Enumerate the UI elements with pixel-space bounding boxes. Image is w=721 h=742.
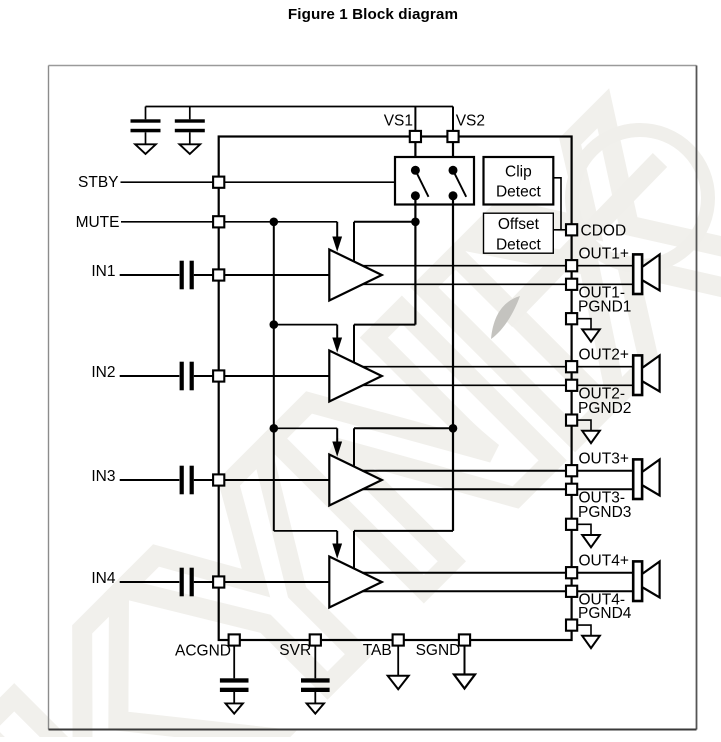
pin OUT2-	[566, 380, 577, 391]
svg-text:CDOD: CDOD	[581, 222, 627, 239]
pin OUT1+	[566, 260, 577, 271]
pin IN2	[213, 370, 224, 381]
pin TAB	[393, 634, 404, 645]
svg-text:Figure 1 Block diagram: Figure 1 Block diagram	[288, 6, 458, 23]
ground (PGND4)	[582, 636, 600, 648]
capacitor (IN2 coupling)	[180, 362, 194, 391]
wire OUT2-	[362, 384, 633, 386]
wire: mute tap amp 2	[274, 324, 337, 326]
svg-text:PGND2: PGND2	[578, 400, 631, 417]
op-amp A4	[329, 557, 382, 608]
svg-text:OUT3+: OUT3+	[579, 451, 629, 468]
pin OUT3+	[566, 465, 577, 476]
wire: VS2 bus	[452, 196, 454, 531]
wire: mute tap amp 3	[274, 427, 337, 429]
wire IN1 to coupling cap	[120, 274, 180, 276]
ground (SGND)	[454, 675, 475, 689]
Offset Detect block	[484, 213, 554, 253]
svg-text:PGND4: PGND4	[578, 605, 632, 622]
junction on VS1 bus	[411, 218, 420, 227]
ground (PGND1)	[582, 329, 600, 341]
junction on mute bus	[270, 218, 279, 227]
pin ACGND	[229, 634, 240, 645]
wire cap to IN3 pin	[194, 479, 213, 481]
svg-text:IN1: IN1	[91, 263, 115, 280]
wire OUT1-	[362, 283, 633, 285]
pin OUT3-	[566, 484, 577, 495]
capacitor C1 (supply decoupling)	[131, 107, 161, 145]
capacitor C2 (supply decoupling)	[175, 107, 205, 145]
wire IN3 pin to amp	[224, 479, 329, 481]
mute arrow into amp 1	[332, 222, 342, 252]
pin IN3	[213, 474, 224, 485]
IC block outline	[219, 137, 572, 641]
svg-text:Offset: Offset	[498, 216, 540, 233]
switch SW1 (VS1)	[411, 166, 429, 201]
capacitor (IN4 coupling)	[180, 568, 194, 597]
wire OUT4-	[362, 590, 633, 592]
pin PGND2	[566, 415, 577, 426]
pin OUT1-	[566, 279, 577, 290]
pin PGND1	[566, 313, 577, 324]
pin PGND3	[566, 519, 577, 530]
op-amp A3	[329, 455, 382, 506]
wire PGND1 to ground	[577, 319, 591, 330]
wire MUTE	[121, 221, 337, 223]
svg-text:Detect: Detect	[496, 183, 541, 200]
wire cap to IN2 pin	[194, 375, 213, 377]
mute arrow into amp 2	[332, 325, 342, 353]
ground (below C2)	[180, 144, 201, 154]
svg-text:Detect: Detect	[496, 236, 541, 253]
junction on mute bus	[270, 424, 279, 433]
speaker LS1	[633, 254, 659, 294]
svg-text:VS1: VS1	[384, 113, 413, 130]
wire: VS1 pin to switch	[414, 142, 416, 171]
wire: top supply rail	[146, 106, 454, 108]
wire: mute bus	[273, 222, 275, 531]
wire OUT2+	[362, 366, 633, 368]
wire PGND3 to ground	[577, 524, 591, 535]
speaker LS2	[633, 355, 659, 395]
ground (ACGND)	[226, 703, 243, 713]
pin OUT2+	[566, 361, 577, 372]
svg-text:ACGND: ACGND	[175, 642, 231, 659]
wire SGND down	[464, 645, 466, 675]
wire clip detect to CDOD	[553, 178, 561, 230]
svg-text:PGND1: PGND1	[578, 299, 631, 316]
pin CDOD	[566, 224, 577, 235]
wire offset detect to CDOD	[553, 229, 567, 231]
switch box	[395, 157, 474, 205]
svg-text:PGND3: PGND3	[578, 504, 631, 521]
wire IN1 pin to amp	[224, 274, 329, 276]
svg-text:STBY: STBY	[78, 174, 118, 191]
wire TAB down	[397, 645, 399, 676]
ground (SVR)	[307, 703, 324, 713]
wire: VS1 bus	[414, 196, 416, 325]
wire OUT3+	[362, 470, 633, 472]
wire: supply tap amp 3	[354, 428, 453, 466]
capacitor (SVR)	[301, 678, 330, 703]
junction on mute bus	[270, 320, 279, 329]
wire: supply tap amp 1	[354, 222, 415, 262]
pin OUT4+	[566, 567, 577, 578]
ground (below C1)	[135, 144, 156, 154]
pin SVR	[310, 634, 321, 645]
wire IN3 to coupling cap	[120, 479, 180, 481]
svg-text:IN2: IN2	[91, 364, 115, 381]
capacitor (IN1 coupling)	[180, 261, 194, 290]
wire OUT3-	[362, 488, 633, 490]
wire OUT4+	[362, 572, 633, 574]
ground (TAB)	[388, 676, 409, 690]
pin OUT4-	[566, 586, 577, 597]
svg-text:OUT1+: OUT1+	[579, 246, 629, 263]
svg-text:IN4: IN4	[91, 570, 116, 587]
switch SW2 (VS2)	[449, 166, 467, 201]
wire IN2 to coupling cap	[120, 375, 180, 377]
Clip Detect block	[484, 157, 554, 205]
wire: VS2 pin to switch	[452, 142, 454, 171]
wire: VS1 drop	[414, 107, 416, 132]
wire IN4 pin to amp	[224, 581, 329, 583]
wire SVR down	[314, 645, 316, 678]
mute arrow into amp 4	[332, 531, 342, 559]
wire PGND4 to ground	[577, 625, 591, 636]
pin VS1	[410, 131, 421, 142]
mute arrow into amp 3	[332, 428, 342, 456]
pin SGND	[459, 634, 470, 645]
ground (PGND3)	[582, 535, 600, 547]
wire cap to IN1 pin	[194, 274, 213, 276]
wire IN2 pin to amp	[224, 375, 329, 377]
op-amp A1	[329, 250, 382, 301]
ground (PGND2)	[582, 431, 600, 443]
wire ACGND down	[233, 645, 235, 678]
pin PGND4	[566, 620, 577, 631]
junction on VS2 bus	[449, 424, 458, 433]
pin VS2	[447, 131, 458, 142]
wire: supply tap amp 4	[354, 531, 453, 569]
pin IN4	[213, 576, 224, 587]
svg-text:SGND: SGND	[416, 642, 461, 659]
svg-text:Clip: Clip	[505, 163, 532, 180]
pin MUTE	[213, 216, 224, 227]
wire: mute tap amp 4	[274, 530, 337, 532]
wire PGND2 to ground	[577, 420, 591, 431]
svg-text:TAB: TAB	[363, 642, 392, 659]
wire: supply tap amp 2	[354, 325, 415, 363]
wire cap to IN4 pin	[194, 581, 213, 583]
svg-text:OUT4+: OUT4+	[579, 553, 629, 570]
wire OUT1+	[362, 265, 633, 267]
speaker LS3	[633, 459, 659, 499]
wire IN4 to coupling cap	[120, 581, 180, 583]
pin STBY	[213, 177, 224, 188]
capacitor (ACGND)	[220, 678, 249, 703]
svg-text:MUTE: MUTE	[76, 214, 120, 231]
svg-text:SVR: SVR	[279, 642, 311, 659]
op-amp A2	[329, 351, 382, 402]
svg-text:VS2: VS2	[456, 113, 485, 130]
pin IN1	[213, 269, 224, 280]
wire: VS2 drop	[452, 107, 454, 132]
svg-text:OUT2+: OUT2+	[579, 347, 629, 364]
capacitor (IN3 coupling)	[180, 466, 194, 495]
wire STBY	[121, 181, 396, 183]
svg-text:IN3: IN3	[91, 468, 115, 485]
speaker LS4	[633, 561, 659, 601]
